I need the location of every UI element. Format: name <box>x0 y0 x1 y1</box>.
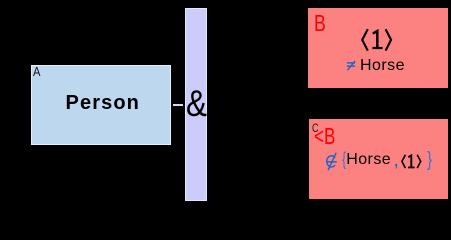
vertical bar node <box>185 8 207 201</box>
node A box (Person) <box>31 65 172 145</box>
left angle bracket <box>362 29 368 50</box>
not-element-of symbol in C <box>326 152 339 172</box>
right angle bracket <box>417 154 421 167</box>
digit 1 <box>408 155 411 166</box>
close brace in C <box>427 150 432 171</box>
subset-of-B marker <box>314 125 335 148</box>
right angle bracket <box>386 29 392 50</box>
comma in C <box>393 150 399 170</box>
tuple symbol in C <box>401 154 422 170</box>
wire dash between Person box and bar <box>173 104 183 106</box>
open brace in C <box>342 150 346 168</box>
digit 1 <box>373 31 378 47</box>
node C box <box>309 119 449 199</box>
text Horse in C <box>346 152 391 168</box>
node C label <box>312 122 319 134</box>
not-equal symbol in B <box>346 60 356 71</box>
node B label <box>314 12 326 35</box>
tuple symbol in B <box>361 28 395 53</box>
left angle bracket <box>402 154 406 167</box>
node A label <box>33 65 40 78</box>
text Horse in B <box>360 58 405 74</box>
ampersand on bar <box>186 85 207 122</box>
node A text Person <box>33 93 174 113</box>
node B box <box>308 8 448 88</box>
